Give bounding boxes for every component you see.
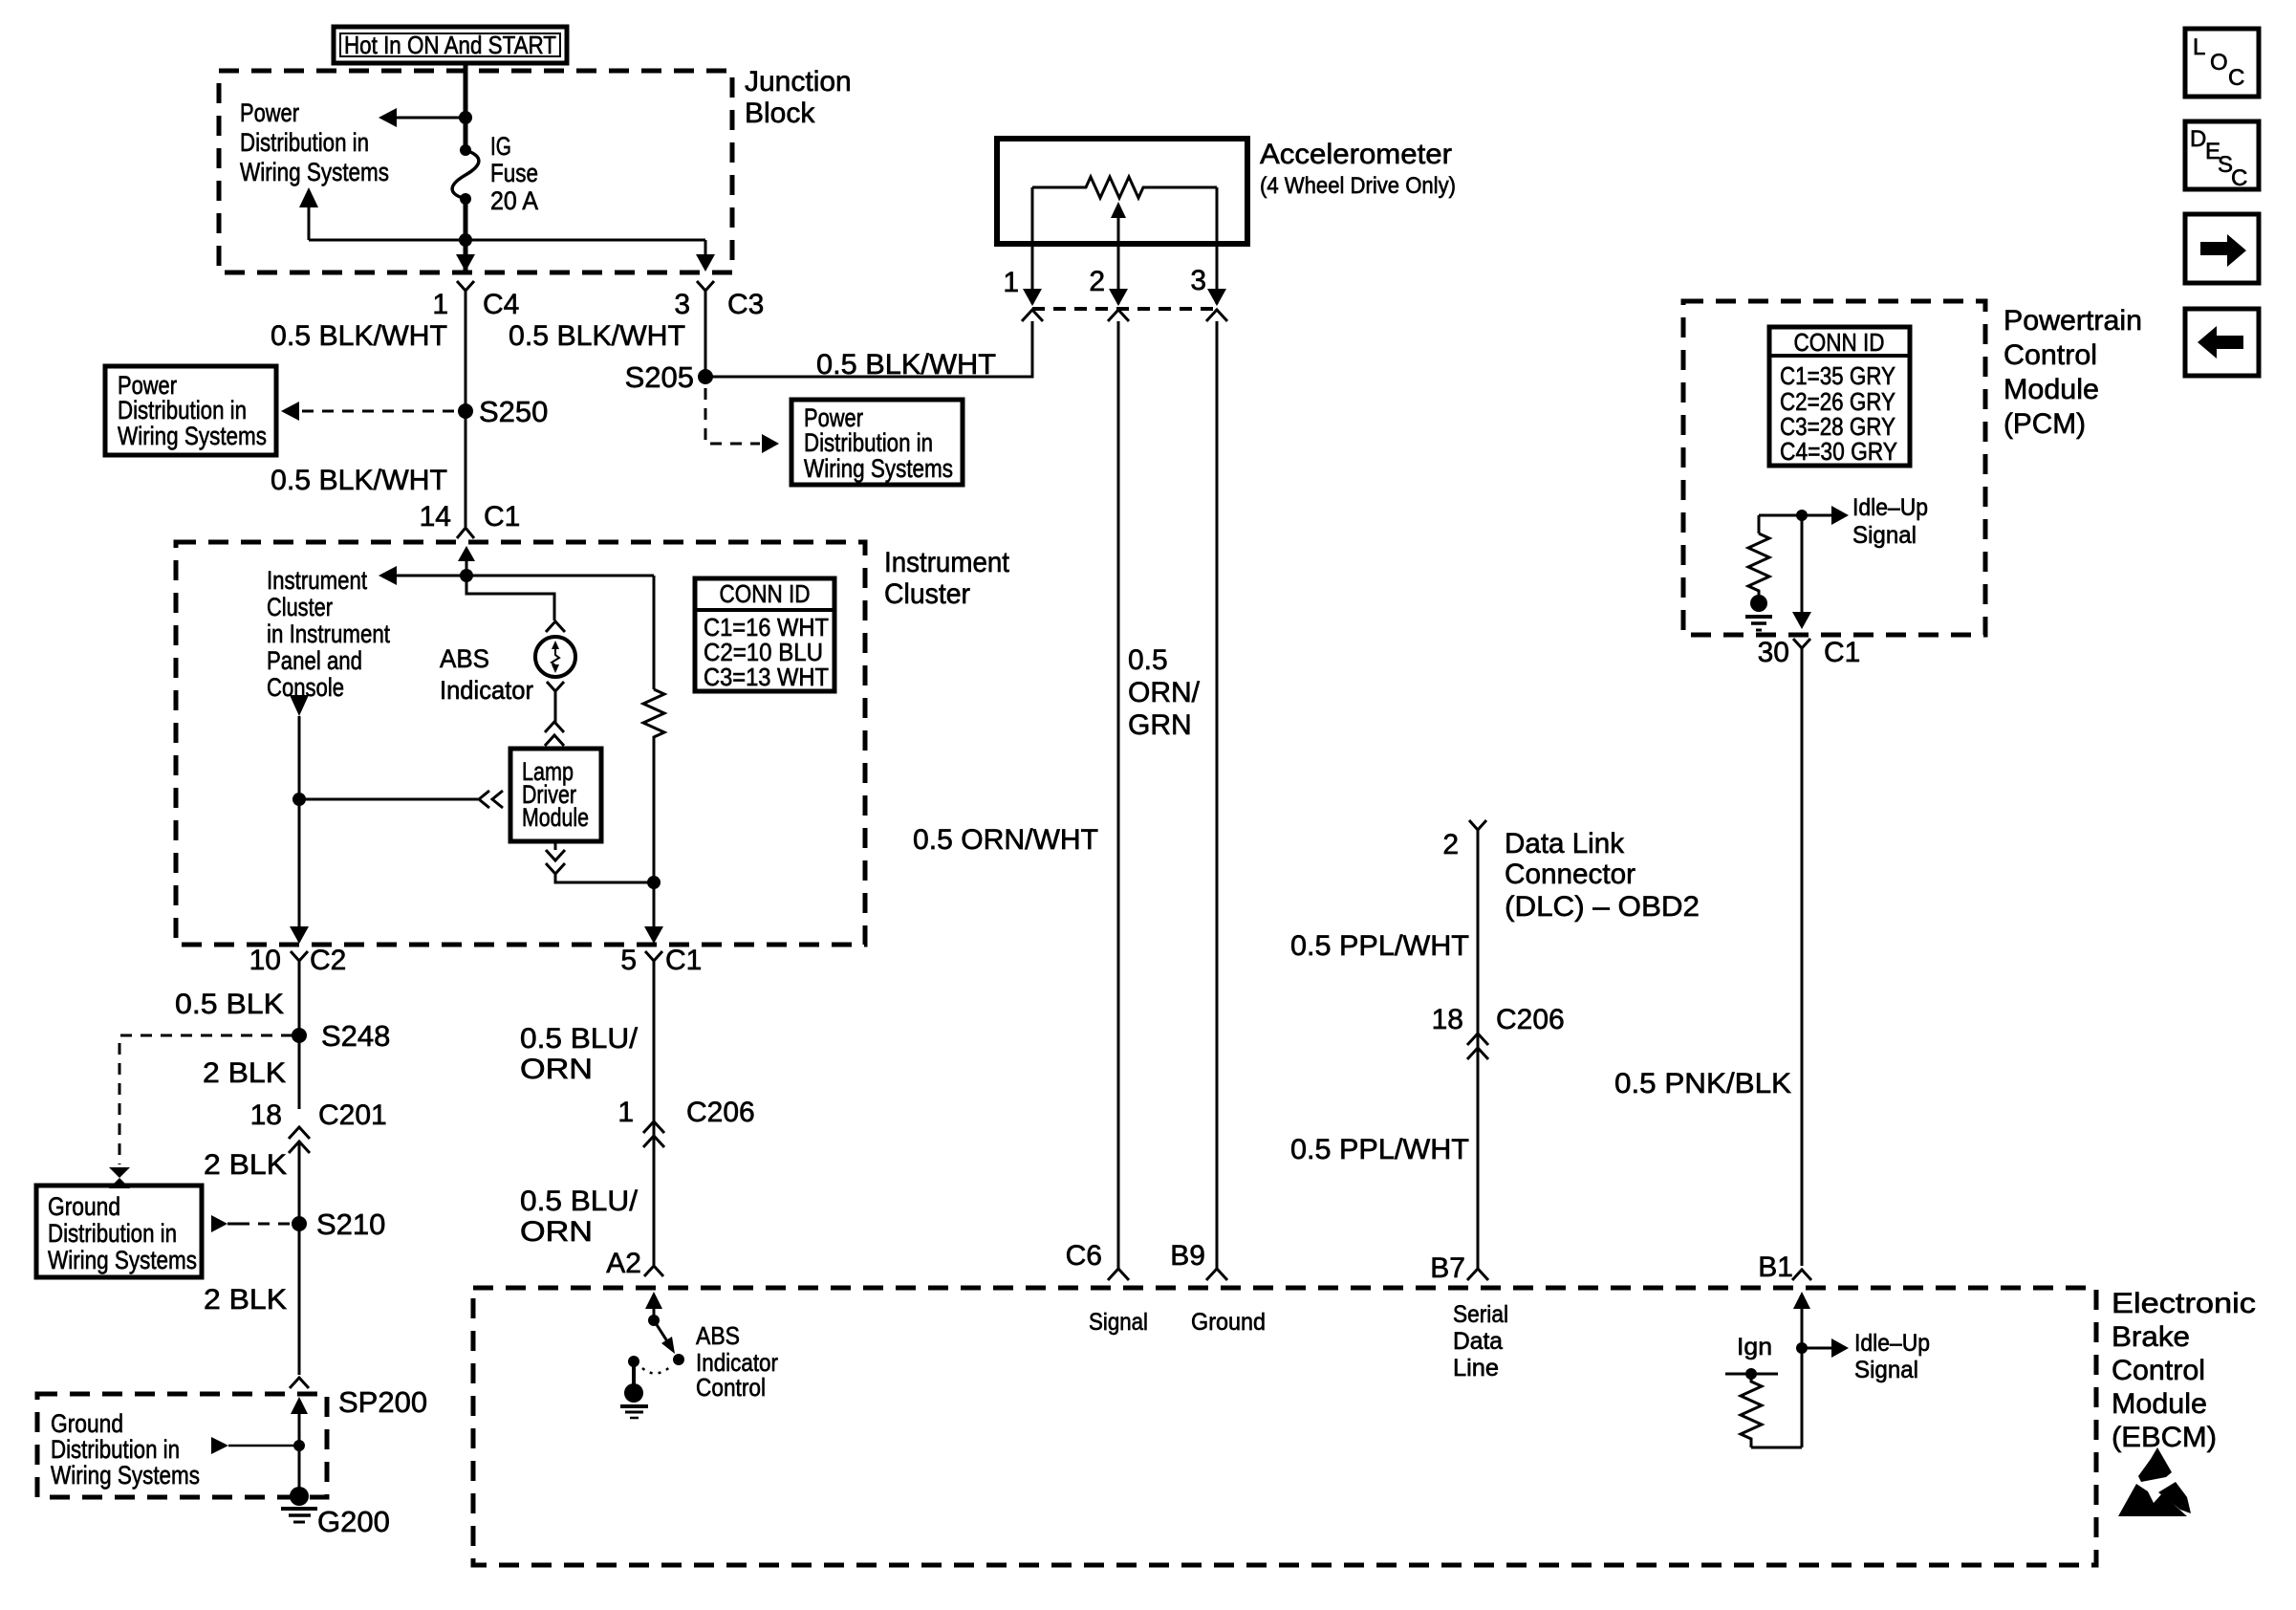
svg-text:14: 14 — [420, 501, 451, 533]
arrow to Instrument Cluster text — [379, 566, 397, 585]
arrow: Idle-Up Signal (EBCM) — [1802, 1338, 1849, 1358]
arrow up inside at SP200 — [291, 1397, 308, 1490]
svg-text:L: L — [2193, 34, 2205, 60]
resistor (EBCM) — [1741, 1374, 1802, 1447]
connector double chevron into LDM (pointing left) — [479, 791, 503, 808]
svg-text:2 BLK: 2 BLK — [204, 1284, 287, 1316]
svg-text:Distribution in: Distribution in — [48, 1219, 177, 1248]
svg-text:C4: C4 — [483, 289, 519, 320]
dotted travel arc — [642, 1366, 671, 1374]
wire: branch from junction to ABS bulb — [466, 576, 554, 620]
connector fork 10 C2 — [291, 951, 308, 961]
svg-text:1: 1 — [1003, 267, 1019, 298]
svg-text:C2: C2 — [310, 945, 346, 976]
svg-text:A2: A2 — [606, 1248, 641, 1279]
accelerometer title — [1260, 139, 1456, 199]
wire: horizontal rail in junction block — [309, 239, 705, 242]
wire: LDM output down — [554, 841, 557, 850]
svg-text:0.5 BLK/WHT: 0.5 BLK/WHT — [271, 465, 447, 496]
connector fork below bulb — [547, 682, 564, 691]
reference box: Ground Distribution in Wiring Systems (upper) — [36, 1186, 202, 1277]
svg-text:Idle–Up: Idle–Up — [1852, 494, 1928, 521]
EBCM title — [2112, 1288, 2256, 1453]
svg-text:0.5 PPL/WHT: 0.5 PPL/WHT — [1290, 1134, 1469, 1165]
lamp driver module box — [510, 749, 601, 841]
label Serial Data Line — [1453, 1301, 1508, 1382]
svg-text:D: D — [2190, 126, 2206, 152]
splice S205 — [698, 369, 713, 384]
svg-text:20 A: 20 A — [490, 186, 538, 215]
ground distribution dashed box (lower) — [37, 1394, 327, 1497]
arrow: Idle-Up Signal (PCM) — [1802, 506, 1849, 525]
svg-text:1: 1 — [432, 289, 448, 320]
wire: pot left leg pin 1 — [1031, 187, 1034, 304]
svg-text:Wiring Systems: Wiring Systems — [240, 158, 389, 186]
svg-text:Brake: Brake — [2112, 1321, 2190, 1353]
connector chevron at C6 — [1108, 1269, 1129, 1280]
svg-text:0.5 BLK/WHT: 0.5 BLK/WHT — [271, 320, 447, 352]
fuse IG 20A — [452, 144, 479, 205]
svg-text:Connector: Connector — [1505, 859, 1635, 890]
arrow to Power Distribution (left) — [379, 108, 397, 127]
wire: LDM output to resistor node — [555, 874, 654, 882]
resistor (cluster) — [643, 576, 664, 941]
instrument cluster title — [884, 547, 1010, 610]
svg-text:0.5 PPL/WHT: 0.5 PPL/WHT — [1290, 930, 1469, 962]
svg-text:Block: Block — [745, 98, 815, 129]
ground G200 — [281, 1487, 317, 1522]
arrows down at accelerometer connector — [1023, 289, 1042, 306]
svg-text:2 BLK: 2 BLK — [203, 1057, 286, 1089]
node: branch junction on main feed — [459, 111, 472, 124]
arrow down at cluster 10/C2 exit — [290, 926, 309, 944]
svg-text:1: 1 — [617, 1097, 634, 1128]
svg-text:C4=30 GRY: C4=30 GRY — [1780, 437, 1897, 466]
reference box: Power Distribution in Wiring Systems (mid) — [791, 400, 963, 485]
wire: S205 to accelerometer pin 1 — [705, 321, 1032, 377]
svg-text:ORN: ORN — [520, 1054, 593, 1085]
svg-text:Instrument: Instrument — [267, 566, 367, 595]
arrow down at C3 exit — [696, 254, 715, 272]
svg-text:(4 Wheel Drive Only): (4 Wheel Drive Only) — [1260, 173, 1456, 199]
connector fork 30 C1 — [1793, 639, 1810, 648]
wire: branch to Power Distribution arrow — [395, 117, 466, 120]
svg-text:18: 18 — [250, 1099, 282, 1131]
wire+arrow: rail left end up arrow — [299, 187, 318, 240]
svg-text:B9: B9 — [1170, 1240, 1205, 1272]
label: IG Fuse 20 A — [490, 132, 538, 215]
svg-text:S210: S210 — [316, 1207, 385, 1241]
arrow up at cluster 14/C1 entry — [458, 546, 475, 576]
svg-text:IG: IG — [490, 132, 511, 161]
arrow down at C4 exit — [456, 254, 475, 272]
svg-text:Control: Control — [2112, 1355, 2205, 1386]
svg-text:ORN: ORN — [520, 1216, 593, 1248]
svg-text:Module: Module — [2112, 1388, 2207, 1420]
svg-text:Wiring Systems: Wiring Systems — [48, 1246, 197, 1274]
node: EBCM idle-up junction — [1796, 1342, 1808, 1354]
reference box DESC — [2185, 121, 2259, 191]
svg-text:0.5 ORN/WHT: 0.5 ORN/WHT — [913, 824, 1098, 856]
reference box left arrow — [2185, 309, 2259, 376]
svg-text:0.5 PNK/BLK: 0.5 PNK/BLK — [1614, 1068, 1791, 1099]
ABS Indicator bulb — [535, 637, 575, 677]
dashed link S205 to Power Distribution box — [705, 388, 760, 444]
svg-text:(EBCM): (EBCM) — [2112, 1422, 2217, 1453]
PCM title — [2004, 305, 2142, 440]
label 0.5 ORN/GRN — [1128, 644, 1201, 741]
svg-text:C3: C3 — [727, 289, 764, 320]
svg-text:Accelerometer: Accelerometer — [1260, 139, 1452, 170]
label: Ground Distribution in Wiring Systems (lower box) — [51, 1409, 200, 1490]
potentiometer resistor inside accelerometer — [1032, 177, 1217, 198]
svg-text:C: C — [2228, 65, 2244, 91]
PCM internal idle-up circuit — [1748, 515, 1802, 595]
wire: accelerometer pin 3 ground down to EBCM B9 — [1216, 321, 1219, 1269]
wire: accelerometer pin 2 signal down to EBCM C6 — [1117, 321, 1120, 1269]
label 0.5 BLU/ORN (lower) — [520, 1186, 639, 1248]
connector chevron at B1 — [1792, 1270, 1811, 1280]
svg-text:0.5 BLK/WHT: 0.5 BLK/WHT — [816, 349, 996, 381]
svg-text:Signal: Signal — [1854, 1357, 1918, 1383]
svg-text:Module: Module — [2004, 374, 2099, 405]
svg-text:Module: Module — [522, 803, 589, 832]
svg-text:Junction: Junction — [745, 66, 852, 98]
svg-text:Wiring Systems: Wiring Systems — [804, 454, 953, 483]
node: cluster feed junction — [460, 569, 473, 582]
svg-text:0.5 BLU/: 0.5 BLU/ — [520, 1186, 639, 1217]
svg-text:30: 30 — [1758, 637, 1789, 668]
svg-text:C3=13 WHT: C3=13 WHT — [704, 663, 829, 691]
label 0.5 BLU/ORN (upper) — [520, 1023, 639, 1085]
svg-text:Powertrain: Powertrain — [2004, 305, 2142, 337]
svg-text:Ground: Ground — [51, 1409, 123, 1438]
svg-text:Wiring Systems: Wiring Systems — [51, 1461, 200, 1490]
arrow into Power Distribution box (left) — [281, 402, 299, 421]
wire: bulb to lamp driver module — [554, 691, 557, 723]
wire: left cluster drop with triangle tap — [290, 695, 309, 942]
EBCM dashed box — [473, 1288, 2096, 1565]
svg-text:in Instrument: in Instrument — [267, 620, 390, 648]
wire: fuse to lower rail — [464, 199, 468, 271]
label: Instrument Cluster in Instrument Panel and Console — [267, 566, 390, 702]
label ABS Indicator — [440, 644, 533, 705]
svg-text:Control: Control — [2004, 339, 2097, 371]
wire: rail right end down to C3 pin — [704, 240, 707, 260]
arrow down at PCM 30/C1 exit — [1792, 612, 1811, 629]
wire: cluster feed rail — [395, 575, 654, 577]
CONN ID table (instrument cluster) — [695, 578, 834, 691]
node: left drop junction — [292, 793, 306, 806]
connector double chevron below LDM — [546, 850, 565, 874]
label: Power Distribution in Wiring Systems (junction block) — [240, 98, 389, 186]
connector chevron above bulb — [546, 621, 565, 632]
svg-text:C1: C1 — [1824, 637, 1860, 668]
dashed link S248 to ground hourglass — [119, 1035, 292, 1164]
junction block dashed box — [219, 71, 732, 272]
connector chevron at A2 — [644, 1266, 663, 1276]
svg-text:(PCM): (PCM) — [2004, 408, 2086, 440]
node: rail junction — [459, 233, 472, 247]
svg-text:0.5 BLU/: 0.5 BLU/ — [520, 1023, 639, 1055]
svg-text:Wiring Systems: Wiring Systems — [118, 422, 267, 450]
svg-text:O: O — [2210, 50, 2228, 76]
connector double chevron above LDM — [545, 722, 564, 746]
connector chevrons below dashed line — [1022, 310, 1043, 321]
connector fork 5 C1 — [645, 951, 662, 961]
svg-text:18: 18 — [1432, 1004, 1463, 1035]
svg-text:0.5 BLK: 0.5 BLK — [175, 989, 284, 1020]
svg-text:C206: C206 — [686, 1097, 755, 1128]
svg-text:(DLC) – OBD2: (DLC) – OBD2 — [1505, 891, 1700, 923]
svg-text:0.5: 0.5 — [1128, 644, 1168, 676]
wiper arrow pin 2 — [1111, 202, 1126, 304]
ESD warning symbol — [2118, 1447, 2191, 1516]
svg-text:C206: C206 — [1496, 1004, 1565, 1035]
svg-text:Power: Power — [240, 98, 299, 127]
splice S250 — [458, 403, 473, 419]
svg-text:2: 2 — [1089, 266, 1105, 297]
arrow from Ground Distribution box (points right) — [211, 1215, 238, 1232]
node: PCM idle-up junction — [1796, 510, 1808, 521]
connector chevron SP200 above box — [290, 1378, 309, 1388]
svg-text:Electronic: Electronic — [2112, 1288, 2256, 1319]
svg-text:Serial: Serial — [1453, 1301, 1508, 1328]
switch ground contact — [620, 1356, 648, 1418]
splice S248 — [292, 1028, 307, 1043]
svg-text:Ground: Ground — [1191, 1309, 1266, 1336]
svg-text:Ground: Ground — [48, 1192, 120, 1221]
svg-text:Hot In ON And START: Hot In ON And START — [344, 31, 556, 59]
reference box right arrow — [2185, 214, 2259, 283]
svg-text:10: 10 — [249, 945, 281, 976]
Ign terminal bar — [1725, 1368, 1778, 1380]
label ABS Indicator Control — [696, 1321, 778, 1402]
svg-text:Distribution in: Distribution in — [240, 128, 369, 157]
wire: C2 pin down to S248 — [298, 961, 301, 1109]
wire: C3 pin down to S205 — [704, 291, 707, 377]
data link connector wire — [1469, 820, 1486, 1269]
instrument cluster dashed box — [176, 542, 865, 945]
wire: PCM pin 30 output — [1801, 515, 1804, 617]
svg-text:Line: Line — [1453, 1355, 1499, 1382]
svg-text:S205: S205 — [625, 360, 694, 394]
label Idle-Up Signal (PCM) — [1852, 494, 1928, 549]
arrow into Power Distribution box (right) — [762, 434, 779, 453]
CONN ID table (PCM) — [1769, 327, 1910, 466]
wire: cluster 5/C1 down to EBCM A2 — [653, 961, 656, 1265]
svg-text:0.5 BLK/WHT: 0.5 BLK/WHT — [509, 320, 685, 352]
svg-text:SP200: SP200 — [338, 1385, 427, 1419]
arrow up inside EBCM at B1 — [1793, 1292, 1810, 1447]
ABS indicator control switch — [648, 1315, 684, 1365]
reference box LOC — [2185, 29, 2259, 97]
svg-text:ABS: ABS — [696, 1321, 740, 1350]
connector fork 3 C3 — [697, 281, 714, 291]
svg-text:C1: C1 — [665, 945, 702, 976]
svg-text:2 BLK: 2 BLK — [204, 1149, 287, 1181]
svg-text:CONN ID: CONN ID — [720, 579, 811, 608]
svg-text:Cluster: Cluster — [267, 593, 333, 621]
arrow up inside EBCM at A2 — [645, 1292, 662, 1319]
svg-text:3: 3 — [674, 289, 690, 320]
wire: PCM to EBCM B1 — [1801, 648, 1804, 1266]
svg-text:3: 3 — [1190, 265, 1206, 296]
svg-text:GRN: GRN — [1128, 709, 1192, 741]
svg-text:2: 2 — [1442, 829, 1459, 860]
svg-text:C1: C1 — [484, 501, 520, 533]
svg-text:G200: G200 — [317, 1505, 390, 1538]
dashed link to S210 — [238, 1223, 292, 1226]
svg-text:Data: Data — [1453, 1328, 1503, 1355]
svg-text:5: 5 — [620, 945, 637, 976]
svg-text:S248: S248 — [321, 1019, 390, 1053]
svg-text:Data Link: Data Link — [1505, 828, 1625, 859]
dashed connector line pins 1-3 — [1032, 307, 1217, 311]
splice S210 — [292, 1216, 307, 1231]
svg-text:C1=35 GRY: C1=35 GRY — [1780, 361, 1895, 390]
svg-text:S250: S250 — [479, 395, 548, 428]
connector fork 1 C4 — [457, 281, 474, 291]
wire: main power feed from Hot box through fuse — [464, 61, 468, 150]
junction block title — [745, 66, 852, 129]
svg-text:Panel and: Panel and — [267, 646, 362, 675]
arrow down at cluster 5/C1 exit — [644, 926, 663, 944]
label box "Hot In ON And START" — [334, 27, 567, 63]
svg-text:C6: C6 — [1066, 1240, 1102, 1272]
dashed link S250 to Power Distribution box — [302, 410, 459, 413]
wire: C4 pin down to S250 — [465, 291, 467, 527]
reference box: Power Distribution in Wiring Systems (left) — [105, 366, 276, 455]
svg-text:Indicator: Indicator — [440, 676, 533, 705]
svg-text:ORN/: ORN/ — [1128, 677, 1201, 708]
svg-text:Distribution in: Distribution in — [118, 396, 247, 424]
svg-text:B1: B1 — [1758, 1251, 1793, 1283]
connector chevron at B7 — [1467, 1269, 1488, 1280]
svg-text:Cluster: Cluster — [884, 578, 970, 610]
svg-text:Fuse: Fuse — [490, 159, 538, 187]
svg-text:B7: B7 — [1430, 1252, 1465, 1284]
hourglass splice symbol — [109, 1167, 130, 1188]
svg-text:Idle–Up: Idle–Up — [1854, 1330, 1930, 1357]
PCM dashed box — [1683, 301, 1985, 635]
svg-text:C201: C201 — [318, 1099, 387, 1131]
svg-text:Ign: Ign — [1737, 1334, 1772, 1360]
node: G200 tap — [293, 1440, 305, 1451]
ground inside PCM — [1745, 595, 1772, 630]
arrow from page reference into G200 wire — [211, 1437, 299, 1454]
svg-text:C: C — [2231, 165, 2247, 191]
svg-text:Instrument: Instrument — [884, 547, 1010, 578]
svg-text:Signal: Signal — [1089, 1309, 1148, 1336]
svg-text:Signal: Signal — [1852, 522, 1917, 549]
svg-text:Distribution in: Distribution in — [51, 1435, 180, 1464]
connector chevron at B9 — [1206, 1269, 1227, 1280]
wire: pot right leg pin 3 — [1216, 187, 1219, 304]
wire: junction to LDM input — [299, 798, 478, 801]
svg-text:Control: Control — [696, 1373, 766, 1402]
svg-text:ABS: ABS — [440, 644, 489, 673]
svg-text:Distribution in: Distribution in — [804, 428, 933, 457]
title: Data Link Connector (DLC) - OBD2 — [1505, 828, 1700, 923]
wire: C201 to S210 — [298, 1142, 301, 1375]
label Idle-Up Signal (EBCM) — [1854, 1330, 1930, 1383]
node: resistor/LDM junction — [647, 876, 661, 889]
accelerometer box — [997, 139, 1247, 244]
svg-text:CONN ID: CONN ID — [1794, 328, 1885, 357]
